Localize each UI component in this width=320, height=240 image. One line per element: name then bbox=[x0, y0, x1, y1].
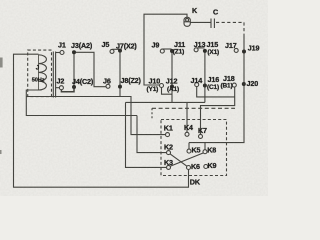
transformer winding lines bbox=[52, 52, 54, 98]
wire J15-J16 vertical to rail bbox=[204, 51, 206, 103]
contact J5 bbox=[110, 49, 114, 53]
contact K3 bbox=[167, 165, 171, 169]
wire J2 to J4 bottom link bbox=[61, 89, 74, 92]
wire coil bottom to lower feed rail bbox=[26, 90, 137, 116]
wire J11-J12 vertical to rail bbox=[171, 51, 173, 102]
capacitor C bbox=[211, 19, 214, 29]
contact J2 bbox=[59, 86, 63, 90]
wire outer loop: coil top, left side, bottom, up to K6 bbox=[14, 54, 189, 187]
coil spine bbox=[38, 55, 40, 90]
contact K7 bbox=[199, 134, 203, 138]
node J12 bbox=[170, 85, 174, 89]
wire J2 stub bbox=[56, 87, 60, 89]
wire J10 bottom link bbox=[162, 88, 173, 95]
wire drop to K4 bbox=[186, 102, 188, 132]
wire J1 stub bbox=[56, 52, 61, 54]
wire drop to K2 bbox=[137, 116, 167, 153]
contact J1 bbox=[60, 51, 64, 55]
push-button K bbox=[184, 17, 190, 26]
contact K9 bbox=[204, 165, 208, 169]
wire J16 rail to left (net C1) bbox=[126, 101, 205, 103]
node J20 bbox=[242, 82, 246, 86]
wire link J5-J7 bbox=[112, 48, 119, 50]
contact K8 bbox=[203, 150, 207, 154]
open contacts bbox=[59, 48, 238, 170]
wire right column down to K5/K8 bridge bbox=[189, 36, 244, 143]
junction dots bbox=[72, 49, 246, 89]
wire link J13-J15 bbox=[197, 47, 204, 49]
contact K6 bbox=[187, 166, 191, 170]
contact K2 bbox=[167, 151, 171, 155]
node J7 bbox=[118, 49, 122, 53]
wire drop to K3 bbox=[126, 102, 167, 167]
wire J3 to J6 bbox=[74, 52, 106, 86]
node J11 bbox=[170, 49, 174, 53]
wire secondary bottom rail to K1 bbox=[26, 97, 165, 135]
dashed separator line bbox=[152, 107, 235, 109]
paper grain overlay bbox=[0, 0, 268, 196]
contact J14 bbox=[195, 83, 199, 87]
contact K4 bbox=[185, 132, 189, 136]
contact J9 bbox=[160, 49, 164, 53]
node J19 bbox=[242, 50, 246, 54]
node J4 bbox=[72, 85, 76, 89]
relay coil box (dashed) bbox=[28, 50, 52, 97]
node J3 bbox=[72, 50, 76, 54]
wire K to C bbox=[190, 21, 211, 23]
wire stub to K8 bbox=[204, 143, 206, 150]
wire J3-J4 vertical bbox=[73, 52, 75, 87]
node J16 bbox=[203, 84, 207, 88]
contact J10 bbox=[160, 84, 164, 88]
wire link J9-J11 bbox=[163, 48, 172, 50]
contact K5 bbox=[187, 149, 191, 153]
wire J14 to J18 drop bbox=[197, 87, 235, 97]
wire J7-J8 vertical to rail bbox=[119, 51, 121, 97]
contact J13 bbox=[194, 48, 198, 52]
node J8 bbox=[118, 85, 122, 89]
wire J18 to K7 (net B1) bbox=[201, 87, 235, 134]
contact J6 bbox=[106, 84, 110, 88]
wire top feed from K down-left to J10 bbox=[144, 14, 187, 85]
contact J18 bbox=[232, 83, 236, 87]
wire diagonal K2 to K6 bbox=[170, 154, 187, 166]
node J15 bbox=[203, 49, 207, 53]
wire stub to K5 bbox=[188, 143, 190, 150]
switch box DK (dashed) bbox=[161, 120, 227, 176]
wire diagonal K3 to K8 bbox=[170, 153, 203, 166]
wire dashed from C to right column bbox=[216, 22, 244, 36]
relay coil J winding bbox=[39, 55, 47, 90]
scan edge marks bbox=[0, 58, 3, 155]
contact J17 bbox=[234, 48, 238, 52]
contact K1 bbox=[166, 133, 170, 137]
